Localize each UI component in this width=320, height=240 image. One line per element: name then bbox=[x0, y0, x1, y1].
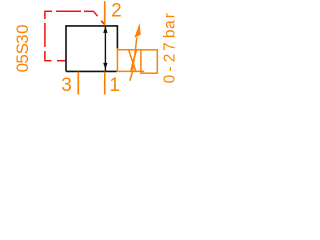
svg-text:0: 0 bbox=[13, 24, 32, 33]
wire: pilot diagonal dash 2 bbox=[101, 21, 104, 25]
wire: pilot top horizontal dash 3 bbox=[84, 10, 94, 12]
svg-text:2: 2 bbox=[111, 0, 122, 21]
wire: pilot vertical dash 3 bbox=[44, 51, 46, 61]
adjustment arrow shaft bbox=[130, 38, 137, 81]
svg-text:r: r bbox=[162, 13, 179, 18]
spring bottom rail bbox=[117, 70, 144, 72]
svg-text:-: - bbox=[162, 66, 179, 71]
spring cage left vertical bbox=[116, 48, 118, 72]
svg-text:3: 3 bbox=[61, 75, 72, 96]
svg-text:1: 1 bbox=[109, 75, 120, 96]
spring top rail bbox=[117, 49, 140, 51]
part number 05S30 bbox=[13, 24, 32, 72]
svg-text:5: 5 bbox=[13, 54, 32, 63]
svg-text:a: a bbox=[162, 20, 179, 29]
wire: pilot top horizontal dash 1 bbox=[44, 10, 52, 12]
valve body square bbox=[66, 26, 117, 72]
adjustment screw box bbox=[141, 50, 157, 73]
adjustable spring assembly bbox=[117, 38, 157, 81]
spring cross stroke B bbox=[131, 50, 137, 71]
port 1 line bbox=[104, 72, 106, 95]
svg-text:0: 0 bbox=[162, 74, 179, 83]
wire: pilot bottom horizontal dash 2 bbox=[57, 60, 65, 62]
pilot line (red dashed) bbox=[44, 11, 104, 60]
wire: pilot vertical dash 2 bbox=[44, 23, 46, 47]
svg-text:2: 2 bbox=[162, 54, 179, 63]
wire: pilot top horizontal dash 2 bbox=[56, 10, 81, 12]
spring cross stroke A bbox=[129, 50, 136, 71]
svg-text:3: 3 bbox=[13, 34, 32, 43]
adjustment arrow head bbox=[134, 23, 140, 38]
port 2 line bbox=[104, 1, 106, 25]
svg-text:7: 7 bbox=[162, 42, 179, 51]
wire: pilot vertical dash 1 bbox=[44, 11, 46, 19]
wire: pilot bottom horizontal dash 1 bbox=[44, 60, 51, 62]
poppet flow arrow bbox=[103, 26, 107, 71]
svg-text:b: b bbox=[162, 29, 179, 38]
wire: pilot diagonal dash 1 bbox=[94, 11, 98, 16]
pressure range label 0 - 27 bar bbox=[162, 13, 179, 83]
port 3 line bbox=[77, 72, 79, 95]
